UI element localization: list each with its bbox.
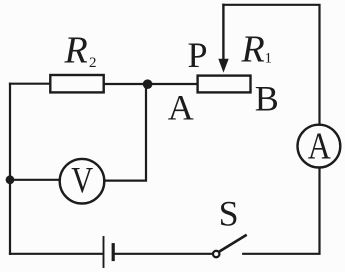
svg-text:A: A: [308, 125, 332, 167]
svg-text:B: B: [255, 79, 279, 119]
label R2: [64, 30, 97, 72]
svg-text:R: R: [241, 29, 265, 71]
ammeter A: [298, 125, 341, 168]
rheostat R1: [198, 76, 251, 93]
wire left vertical: [9, 84, 11, 254]
wire bottom left: [10, 253, 102, 255]
node dot voltmeter tap: [6, 175, 15, 184]
svg-text:1: 1: [265, 51, 273, 67]
wire R2 to node: [104, 83, 148, 85]
wire battery to switch: [115, 253, 212, 255]
wire switch to bottom-right corner, up to ammeter: [243, 169, 319, 254]
wire R2 left to top-left corner: [10, 83, 50, 85]
svg-text:S: S: [219, 194, 239, 234]
wire voltmeter left lead: [10, 179, 60, 181]
label R1: [241, 29, 273, 71]
wire node to R1 terminal A: [148, 83, 198, 85]
switch S: [213, 235, 246, 257]
wiper arrow of R1: [218, 5, 228, 73]
wire voltmeter right lead up to node: [104, 84, 146, 180]
voltmeter V: [60, 159, 105, 204]
battery cell: [104, 237, 114, 267]
svg-text:R: R: [64, 30, 88, 72]
wire top: wiper to top-right corner, down to ammeter: [223, 5, 319, 124]
node junction dot: [143, 79, 153, 89]
svg-text:P: P: [188, 35, 208, 75]
resistor R2: [50, 75, 103, 92]
svg-text:A: A: [168, 87, 194, 127]
svg-text:2: 2: [89, 55, 97, 71]
svg-text:V: V: [71, 161, 93, 201]
